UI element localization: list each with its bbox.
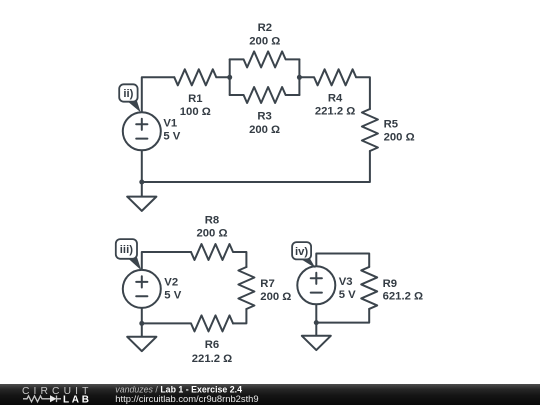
svg-text:200 Ω: 200 Ω (196, 227, 227, 239)
svg-text:http://circuitlab.com/cr9u8rnb: http://circuitlab.com/cr9u8rnb2sth9 (115, 393, 258, 404)
svg-text:R3: R3 (257, 111, 271, 123)
svg-text:R4: R4 (328, 93, 343, 105)
svg-text:V2: V2 (164, 277, 178, 289)
svg-text:5 V: 5 V (339, 289, 356, 301)
svg-text:V3: V3 (339, 276, 353, 288)
svg-text:5 V: 5 V (164, 290, 181, 302)
svg-text:R7: R7 (260, 278, 274, 290)
svg-text:200 Ω: 200 Ω (249, 124, 280, 136)
svg-text:221.2 Ω: 221.2 Ω (315, 106, 355, 118)
svg-text:R9: R9 (383, 278, 397, 290)
svg-text:221.2 Ω: 221.2 Ω (192, 353, 232, 365)
svg-text:621.2 Ω: 621.2 Ω (383, 291, 423, 303)
svg-text:200 Ω: 200 Ω (260, 291, 291, 303)
svg-text:R5: R5 (384, 118, 398, 130)
svg-text:200 Ω: 200 Ω (249, 36, 280, 48)
svg-text:5 V: 5 V (163, 130, 180, 142)
svg-text:200 Ω: 200 Ω (384, 132, 415, 144)
svg-text:iii): iii) (120, 244, 133, 256)
svg-text:R6: R6 (205, 339, 219, 351)
svg-text:V1: V1 (163, 117, 177, 129)
svg-text:100 Ω: 100 Ω (180, 106, 211, 118)
svg-text:ii): ii) (123, 88, 133, 100)
svg-text:R8: R8 (205, 214, 219, 226)
svg-text:R2: R2 (258, 22, 272, 34)
svg-text:iv): iv) (295, 246, 308, 258)
svg-text:LAB: LAB (63, 394, 92, 405)
